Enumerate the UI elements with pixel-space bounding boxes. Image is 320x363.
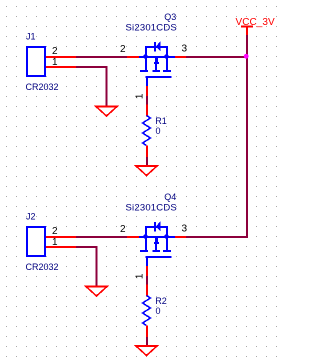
svg-text:R2: R2 — [155, 296, 167, 306]
wire J1.1 to ground — [76, 67, 107, 106]
Q3 left vertical — [145, 46, 147, 71]
Q3 bulk stem — [155, 57, 157, 70]
svg-text:1: 1 — [52, 237, 58, 248]
Q4 channel dash right — [163, 250, 171, 252]
svg-text:0: 0 — [156, 306, 161, 316]
Q3 top line — [145, 46, 168, 48]
power port VCC_3V — [241, 27, 253, 36]
svg-text:2: 2 — [52, 46, 58, 57]
Q3 gate bar — [146, 76, 172, 78]
R1 top lead — [146, 105, 148, 117]
Q3 gate vertical — [146, 77, 148, 86]
Q3 source-drain line — [139, 56, 175, 58]
Q4 channel dash middle — [153, 250, 161, 252]
Q4 body diode bar — [154, 222, 156, 232]
junction dot Q3.3/VCC — [244, 54, 249, 59]
wire Q4.1 to R2 — [146, 276, 148, 285]
Q3 channel dash right — [163, 70, 171, 72]
svg-text:Si2301CDS: Si2301CDS — [126, 203, 177, 214]
svg-text:2: 2 — [120, 224, 126, 235]
ground (R1) — [136, 166, 157, 176]
VCC rail vertical wire — [246, 35, 248, 237]
Q3 bulk arrow — [155, 58, 158, 62]
svg-text:Q4: Q4 — [164, 192, 176, 202]
svg-text:CR2032: CR2032 — [26, 262, 59, 272]
Q4 gate vertical — [146, 257, 148, 266]
Q3 right vertical — [166, 46, 168, 71]
wire J2.1 to ground — [76, 247, 97, 286]
wire R2 to ground — [146, 337, 148, 346]
R2 bottom lead — [146, 326, 148, 338]
wire J2.2 to Q4.2 — [76, 236, 127, 238]
svg-text:J2: J2 — [26, 212, 36, 222]
Q4 gate bar — [146, 256, 172, 258]
R1 bottom lead — [146, 146, 148, 158]
svg-text:0: 0 — [156, 126, 161, 136]
transistor Q4 Si2301CDS — [127, 221, 186, 276]
svg-text:J1: J1 — [26, 32, 36, 42]
J2 pin 1 — [46, 246, 76, 248]
Q4 bulk arrow — [155, 238, 158, 242]
connector J2 — [27, 227, 45, 256]
Q3 body diode bar — [154, 42, 156, 52]
svg-text:Q3: Q3 — [164, 12, 176, 22]
svg-text:Si2301CDS: Si2301CDS — [126, 23, 177, 34]
R1 zigzag — [143, 116, 151, 146]
R2 zigzag — [143, 296, 151, 326]
J2 pin 2 — [46, 236, 76, 238]
Q4 junction dot left — [143, 234, 148, 239]
ground (R2) — [136, 346, 157, 356]
svg-text:3: 3 — [182, 44, 188, 55]
ground (J1) — [96, 107, 117, 117]
Q4 bulk stem — [155, 237, 157, 250]
Q4 top line — [145, 226, 168, 228]
svg-text:R1: R1 — [155, 116, 167, 126]
J1 pin 1 — [46, 66, 76, 68]
VCC_3V stem — [246, 27, 248, 36]
Q3 pin 1 lead — [146, 86, 148, 96]
Q3 junction dot right — [164, 54, 169, 59]
Q3 channel dash left — [140, 70, 148, 72]
Q3 pin 3 lead — [175, 56, 186, 58]
svg-text:3: 3 — [182, 224, 188, 235]
connector J1 — [27, 47, 45, 76]
Q3 junction dot left — [143, 54, 148, 59]
Q4 pin 2 lead — [127, 236, 139, 238]
svg-text:CR2032: CR2032 — [26, 82, 59, 92]
svg-text:VCC_3V: VCC_3V — [236, 17, 275, 28]
J1 pin 2 — [46, 56, 76, 58]
Q4 pin 1 lead — [146, 266, 148, 276]
svg-text:1: 1 — [135, 93, 146, 99]
Q3 body diode triangle — [156, 41, 161, 52]
Q4 pin 3 lead — [175, 236, 186, 238]
wire R1 to ground — [146, 157, 148, 166]
Q3 pin 2 lead — [127, 56, 139, 58]
wire Q3.3 to VCC rail — [186, 56, 248, 58]
Q4 channel dash left — [140, 250, 148, 252]
svg-text:2: 2 — [120, 44, 126, 55]
resistor R2 — [143, 285, 151, 338]
Q4 source-drain line — [139, 236, 175, 238]
ground (J2) — [86, 287, 107, 297]
Q4 junction dot right — [164, 234, 169, 239]
Q3 channel dash middle — [153, 70, 161, 72]
wire Q3.1 to R1 — [146, 96, 148, 105]
R2 top lead — [146, 285, 148, 297]
Q4 right vertical — [166, 226, 168, 251]
VCC_3V bar — [241, 26, 253, 28]
wire VCC rail to Q4.3 — [186, 236, 248, 238]
wire J1.2 to Q3.2 — [76, 56, 127, 58]
Q4 left vertical — [145, 226, 147, 251]
resistor R1 — [143, 105, 151, 158]
svg-text:2: 2 — [52, 226, 58, 237]
transistor Q3 Si2301CDS — [127, 41, 186, 96]
svg-text:1: 1 — [135, 273, 146, 279]
Q4 body diode triangle — [156, 221, 161, 232]
svg-text:1: 1 — [52, 57, 58, 68]
